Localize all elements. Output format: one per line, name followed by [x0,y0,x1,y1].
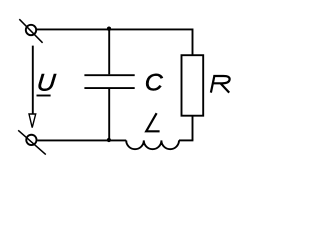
svg-text:C: C [145,70,163,96]
svg-text:U: U [36,70,57,96]
